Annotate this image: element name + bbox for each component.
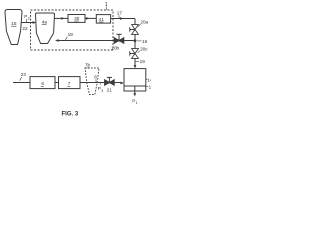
- label 19: [135, 60, 139, 62]
- svg-text:20c: 20c: [140, 46, 148, 51]
- svg-text:40: 40: [74, 16, 80, 21]
- valve 20b: [114, 38, 119, 44]
- wire 6 to 7: [55, 82, 59, 84]
- box 41: [96, 15, 110, 24]
- box 40: [68, 15, 85, 23]
- junction node: [134, 39, 137, 42]
- wire 23 start: [13, 82, 30, 84]
- svg-text:14: 14: [147, 77, 151, 82]
- label 16: [137, 40, 141, 42]
- svg-text:20a: 20a: [140, 20, 148, 25]
- svg-text:17: 17: [117, 10, 123, 15]
- vessel 14: [124, 69, 146, 91]
- wire 40 to 41: [85, 17, 96, 19]
- wire 7 to valve 21: [80, 82, 105, 84]
- inner line: [124, 85, 146, 87]
- vessel 4a: [36, 13, 55, 44]
- wire 4a to 40: [55, 17, 69, 19]
- svg-text:1: 1: [136, 101, 138, 105]
- dashed vessel 7b: [85, 68, 99, 95]
- valve 20a: [132, 25, 139, 30]
- outlet arrow below vessel 14: [134, 91, 136, 94]
- label 14: [146, 78, 148, 80]
- valve 20c: [132, 49, 139, 54]
- wire junction to valve 20b: [124, 40, 134, 42]
- box 6: [30, 77, 55, 89]
- vessel 15: [5, 10, 22, 45]
- svg-text:19: 19: [140, 59, 146, 64]
- svg-text:22: 22: [22, 26, 28, 31]
- svg-text:FIG. 3: FIG. 3: [62, 111, 79, 117]
- wire 18 into vessel 4a: [58, 40, 114, 42]
- svg-text:7: 7: [68, 81, 71, 86]
- wire 20c down to vessel 14: [134, 58, 136, 65]
- label 1: [146, 86, 148, 88]
- svg-text:21: 21: [107, 88, 113, 93]
- svg-text:18: 18: [68, 32, 74, 37]
- wire 21 to vessel 14: [114, 82, 121, 84]
- label P3: [99, 83, 101, 85]
- wire 15 to 4a: [21, 22, 33, 24]
- dashed box 1: [31, 10, 114, 50]
- wire 41 to corner: [111, 18, 135, 20]
- svg-text:1: 1: [149, 84, 151, 89]
- svg-text:16: 16: [142, 39, 148, 44]
- svg-text:20b: 20b: [111, 46, 119, 51]
- svg-text:41: 41: [99, 17, 105, 22]
- svg-text:2: 2: [28, 17, 30, 21]
- svg-text:3: 3: [101, 89, 103, 93]
- valve 21: [105, 80, 110, 86]
- svg-text:6: 6: [41, 81, 44, 86]
- svg-text:8: 8: [94, 75, 97, 80]
- svg-text:23: 23: [21, 72, 27, 77]
- inner divider: [134, 86, 136, 91]
- svg-text:7b: 7b: [85, 62, 91, 67]
- box 7: [59, 77, 81, 89]
- arrow on wire 17: [120, 17, 124, 20]
- svg-text:4a: 4a: [42, 20, 48, 25]
- wire corner down: [134, 19, 136, 25]
- wire 20a to junction: [134, 34, 136, 48]
